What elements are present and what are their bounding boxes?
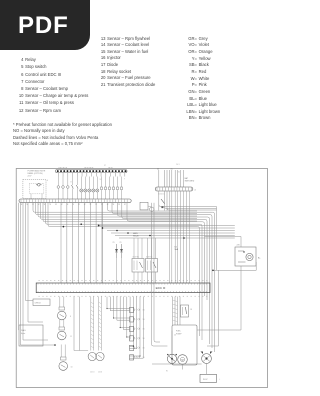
diagnostic box [19,325,43,346]
diode 21 a [116,244,118,258]
injector 3 [130,326,134,331]
bottom connector box [200,374,217,382]
instrument box drop wires [26,198,28,200]
svg-text:PUMP: PUMP [176,333,182,335]
elbow wires bottom-left of pump [152,203,168,346]
ECU bottom pins [37,291,39,293]
svg-text:A: A [195,188,197,191]
svg-text:16: 16 [143,357,145,359]
fuel pressure bundle [172,297,174,325]
svg-text:7: 7 [124,179,125,181]
colour code column [183,36,220,123]
svg-text:37: 37 [104,165,106,167]
svg-text:EDC III: EDC III [156,286,166,290]
small relay box right [181,305,189,317]
svg-text:21: 21 [120,242,122,244]
svg-text:5A 5A: 5A 5A [108,167,113,170]
svg-text:30 87 86: 30 87 86 [133,257,139,259]
svg-text:5A 5A 5A 5A: 5A 5A 5A 5A [84,167,94,170]
wires to battery cluster [205,236,236,238]
left legend column [8,56,88,114]
svg-text:24V: 24V [237,245,241,247]
instrument panel dashed box [23,179,46,198]
check connector box [33,299,50,306]
svg-text:24 V: 24 V [176,164,180,166]
battery cluster box [235,247,256,266]
battery down rail [240,266,242,330]
oil temp sensor [59,327,65,330]
center comb verticals [60,203,62,283]
wire bundle left-to-right [32,203,34,211]
power rail bus [56,170,128,173]
inner dashed box [29,183,44,193]
svg-text:SWITCHED: SWITCHED [185,180,195,182]
starter motor circle [202,354,212,364]
bar B long verticals to ECU [168,191,170,283]
svg-text:11: 11 [70,336,72,338]
injector 1 [130,307,134,312]
svg-text:18: 18 [190,309,192,311]
PDF badge [0,0,90,50]
bar B below verticals short [158,191,160,211]
notes [13,122,112,148]
svg-text:15A 10A 5A: 15A 10A 5A [58,167,68,170]
svg-text:50A: 50A [175,248,179,251]
svg-text:6: 6 [47,180,48,182]
svg-text:12 13: 12 13 [98,372,102,374]
key switch [38,184,41,187]
switch marks [72,177,74,186]
svg-text:10: 10 [71,367,73,369]
alternator circle [167,354,176,363]
svg-text:21: 21 [113,242,115,244]
svg-text:8: 8 [70,316,71,318]
bundle feeders down to relays [133,238,135,259]
relay K1 [132,259,144,273]
injector 2 [130,317,134,322]
relay outputs to ECU [133,272,135,283]
svg-text:W: W [166,371,168,373]
charge air sensor [61,357,67,360]
coolant temp sensor [59,307,65,310]
small sender marks [101,177,103,188]
schematic border frame [16,169,267,388]
svg-text:CHECK: CHECK [35,303,42,305]
bar B elbows to corner [159,205,161,207]
bar A right elbows to corner bundle [107,203,109,209]
svg-text:RELAY: RELAY [133,234,140,237]
corner merge verticals right [216,207,218,271]
injector 5 [130,345,134,350]
fuse circles row [57,177,59,186]
diode feeders [116,258,118,283]
ECU box EDC III [36,283,210,293]
bottom wires [152,363,202,365]
injector 6 [130,355,134,360]
straight rail x102.5 [102,203,104,283]
diode 21 b [121,244,123,258]
pump motor circle [178,355,188,365]
svg-text:20: 20 [174,335,176,337]
pin labels below ECU [39,295,40,297]
svg-text:31 50 15: 31 50 15 [158,194,164,196]
svg-text:12: 12 [100,179,102,181]
svg-text:8: 8 [71,181,72,183]
left long rails [18,203,20,330]
right cluster verticals above bar B [158,170,160,187]
switch diagonal [161,199,165,204]
svg-text:12 13: 12 13 [90,372,94,374]
relay K2 [146,259,158,273]
svg-text:FUEL: FUEL [176,331,181,333]
injector ladder [106,297,108,309]
bundle to battery [99,225,235,227]
svg-text:24 V: 24 V [28,175,33,177]
pin x-marks below bar A [21,204,22,205]
svg-text:6-pin: 6-pin [21,333,25,335]
svg-text:DIAG: DIAG [21,329,26,332]
svg-text:+: + [219,379,221,381]
ECU top pins [37,283,39,285]
middle legend column [98,36,155,89]
rpm extra verticals [73,297,75,351]
svg-text:M: M [182,359,184,362]
starter double circle [246,253,253,260]
svg-text:24 V: 24 V [203,379,208,381]
lower battery wire [213,269,256,271]
relay box left of cluster [140,202,148,210]
connector bar B [155,187,193,191]
pin labels above ECU [39,279,40,281]
lamp circles with X [80,177,82,189]
svg-text:X1: X1 [178,171,180,173]
connector bar A [19,199,131,203]
rpm sensor pair [90,297,92,351]
battery second down rail [218,270,220,346]
left rail turns [21,344,56,346]
pump box [172,325,197,365]
svg-text:B+: B+ [258,258,261,260]
node square [162,206,164,208]
injector 4 [130,336,134,341]
